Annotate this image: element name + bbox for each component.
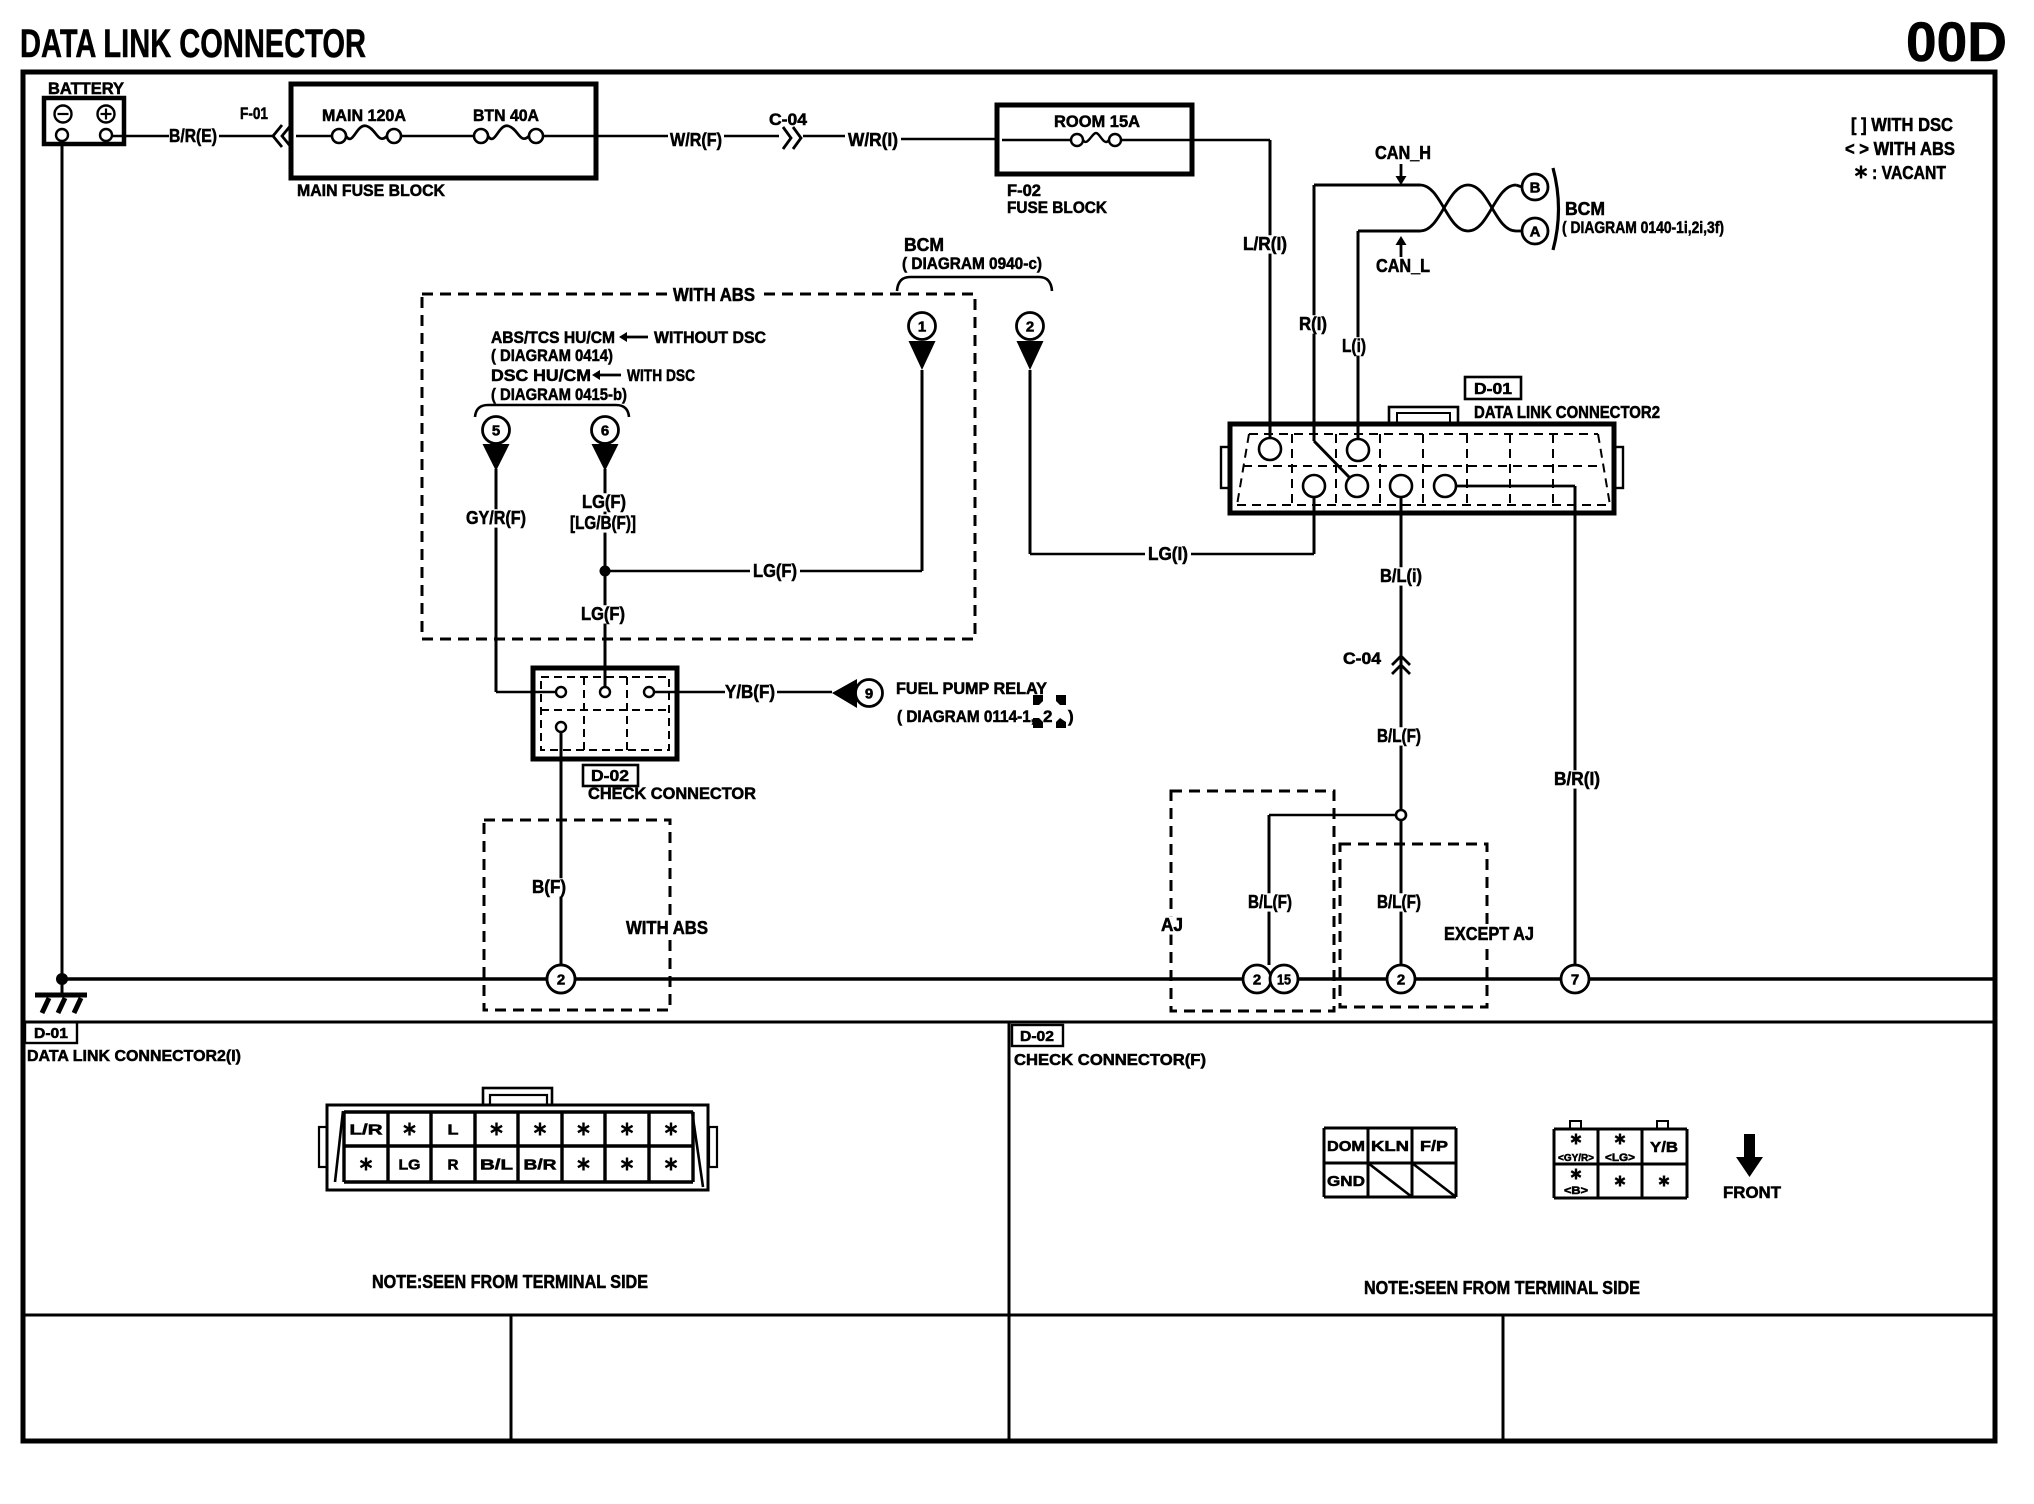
svg-text:AJ: AJ (1161, 915, 1183, 935)
svg-text:B/R(I): B/R(I) (1554, 769, 1600, 789)
svg-text:ROOM 15A: ROOM 15A (1054, 112, 1140, 131)
svg-text:7: 7 (1571, 972, 1579, 989)
svg-text:FUSE BLOCK: FUSE BLOCK (1007, 198, 1108, 217)
svg-text:1: 1 (918, 319, 926, 336)
svg-text:D-02: D-02 (591, 768, 629, 785)
svg-text:B/L(F): B/L(F) (1377, 726, 1421, 746)
svg-text:B: B (1530, 180, 1541, 197)
svg-text:KLN: KLN (1371, 1138, 1409, 1155)
svg-text:Y/B(F): Y/B(F) (725, 682, 775, 702)
svg-text:): ) (1068, 707, 1074, 726)
svg-text:BATTERY: BATTERY (48, 79, 125, 98)
svg-text:5: 5 (492, 423, 500, 440)
svg-text:B/R(E): B/R(E) (169, 126, 217, 146)
svg-text:WITH DSC: WITH DSC (627, 366, 695, 385)
svg-text:GY/R(F): GY/R(F) (466, 508, 526, 528)
svg-text:DSC HU/CM: DSC HU/CM (491, 366, 591, 385)
svg-text:R(I): R(I) (1299, 314, 1327, 334)
svg-text:CAN_L: CAN_L (1376, 256, 1430, 276)
svg-text:9: 9 (865, 686, 873, 703)
svg-text:LG(I): LG(I) (1148, 544, 1188, 564)
svg-text:W/R(I): W/R(I) (848, 130, 898, 150)
svg-text:LG: LG (399, 1157, 421, 1174)
svg-text:<LG>: <LG> (1605, 1152, 1635, 1164)
svg-text:00D: 00D (1906, 10, 2007, 73)
svg-text:CAN_H: CAN_H (1375, 143, 1431, 163)
svg-text:( DIAGRAM 0114-1,: ( DIAGRAM 0114-1, (897, 707, 1035, 726)
svg-text:DOM: DOM (1327, 1138, 1365, 1155)
svg-text:( DIAGRAM 0140-1i,2i,3f): ( DIAGRAM 0140-1i,2i,3f) (1562, 218, 1724, 237)
svg-text:W/R(F): W/R(F) (670, 130, 722, 150)
svg-text:6: 6 (601, 423, 609, 440)
svg-text:LG(F): LG(F) (582, 492, 626, 512)
svg-text:C-04: C-04 (769, 110, 808, 129)
svg-text:LG(F): LG(F) (753, 561, 797, 581)
svg-text:MAIN 120A: MAIN 120A (322, 106, 406, 125)
svg-text:2: 2 (1253, 972, 1261, 989)
svg-text:B(F): B(F) (532, 877, 566, 897)
svg-text:<GY/R>: <GY/R> (1558, 1153, 1594, 1164)
svg-text:D-01: D-01 (1474, 381, 1512, 398)
svg-text:<B>: <B> (1564, 1185, 1588, 1197)
svg-text:DATA LINK CONNECTOR: DATA LINK CONNECTOR (20, 22, 366, 66)
svg-text:CHECK CONNECTOR: CHECK CONNECTOR (588, 784, 756, 803)
svg-text:B/L: B/L (480, 1157, 513, 1174)
svg-text:FUEL PUMP RELAY: FUEL PUMP RELAY (896, 679, 1048, 698)
svg-text:F-01: F-01 (240, 104, 268, 123)
svg-text:L/R(I): L/R(I) (1243, 234, 1287, 254)
svg-text:WITH ABS: WITH ABS (626, 918, 708, 938)
svg-text:BCM: BCM (1565, 199, 1605, 219)
svg-text:B/L(i): B/L(i) (1380, 566, 1422, 586)
svg-text:WITHOUT DSC: WITHOUT DSC (654, 328, 766, 347)
svg-text:ABS/TCS HU/CM: ABS/TCS HU/CM (491, 328, 615, 347)
svg-text:NOTE:SEEN FROM TERMINAL SIDE: NOTE:SEEN FROM TERMINAL SIDE (372, 1272, 648, 1292)
svg-text:CHECK CONNECTOR(F): CHECK CONNECTOR(F) (1014, 1052, 1206, 1069)
svg-text:LG(F): LG(F) (581, 604, 625, 624)
svg-text:Y/B: Y/B (1650, 1139, 1678, 1156)
svg-text:B/R: B/R (524, 1157, 557, 1174)
svg-text:2: 2 (1043, 707, 1052, 726)
svg-text:FRONT: FRONT (1723, 1183, 1782, 1202)
svg-text:WITH ABS: WITH ABS (673, 285, 755, 305)
svg-text:DATA LINK CONNECTOR2: DATA LINK CONNECTOR2 (1474, 402, 1660, 422)
svg-text:2: 2 (1026, 319, 1034, 336)
svg-text:: VACANT: : VACANT (1872, 163, 1946, 183)
svg-text:D-02: D-02 (1020, 1028, 1054, 1045)
svg-text:NOTE:SEEN FROM TERMINAL SIDE: NOTE:SEEN FROM TERMINAL SIDE (1364, 1278, 1640, 1298)
svg-text:DATA LINK CONNECTOR2(I): DATA LINK CONNECTOR2(I) (27, 1048, 241, 1065)
svg-text:MAIN FUSE BLOCK: MAIN FUSE BLOCK (297, 181, 446, 200)
svg-text:L/R: L/R (350, 1122, 383, 1139)
svg-text:2: 2 (1397, 972, 1405, 989)
svg-text:B/L(F): B/L(F) (1248, 892, 1292, 912)
svg-text:15: 15 (1277, 972, 1291, 989)
svg-text:B/L(F): B/L(F) (1377, 892, 1421, 912)
svg-text:( DIAGRAM 0940-c): ( DIAGRAM 0940-c) (902, 254, 1042, 273)
svg-text:A: A (1530, 224, 1541, 241)
svg-text:( DIAGRAM 0414): ( DIAGRAM 0414) (491, 346, 613, 365)
svg-text:EXCEPT AJ: EXCEPT AJ (1444, 924, 1534, 944)
svg-text:D-01: D-01 (34, 1025, 68, 1042)
svg-text:BCM: BCM (904, 235, 944, 255)
svg-text:2: 2 (557, 972, 565, 989)
svg-text:[ ] WITH DSC: [ ] WITH DSC (1851, 115, 1953, 135)
svg-text:F/P: F/P (1420, 1138, 1448, 1155)
svg-text:( DIAGRAM 0415-b): ( DIAGRAM 0415-b) (491, 385, 627, 404)
svg-text:L(i): L(i) (1342, 336, 1366, 356)
svg-text:L: L (448, 1122, 459, 1139)
svg-text:R: R (448, 1157, 459, 1174)
svg-text:[LG/B(F)]: [LG/B(F)] (570, 513, 636, 533)
svg-text:< > WITH ABS: < > WITH ABS (1845, 139, 1955, 159)
svg-text:GND: GND (1327, 1173, 1365, 1190)
svg-text:C-04: C-04 (1343, 649, 1382, 668)
svg-text:BTN 40A: BTN 40A (473, 106, 539, 125)
